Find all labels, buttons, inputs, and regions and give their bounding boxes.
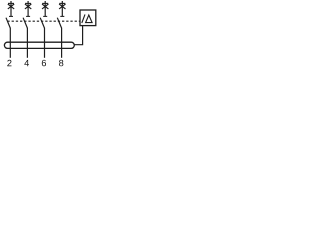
residual-current relay box <box>80 10 96 26</box>
pin number 4 <box>24 60 29 66</box>
wire pole 2 fixed conductor <box>27 1 29 16</box>
wire pole 1 fixed conductor <box>10 1 12 16</box>
switch contact blade pole 1 <box>6 18 10 28</box>
terminal 4 (plug-in clamp symbol, pole 4 top) <box>59 3 65 8</box>
pin number 6 <box>42 60 46 67</box>
current transformer W1 (summation toroid around poles) <box>4 42 74 48</box>
terminal 3 (plug-in clamp symbol, pole 3 top) <box>42 3 48 8</box>
relay delta symbol <box>86 15 93 23</box>
pin number 8 <box>59 60 63 67</box>
fixed contact bar pole 4 <box>60 15 64 17</box>
switch contact blade pole 4 <box>57 18 61 28</box>
relay slash symbol <box>82 14 85 23</box>
pin number 2 <box>7 60 11 66</box>
fixed contact bar pole 1 <box>9 15 13 17</box>
switch contact blade pole 2 <box>23 18 27 28</box>
terminal 2 (plug-in clamp symbol, pole 2 top) <box>25 3 31 8</box>
wire CT secondary to relay <box>74 26 82 45</box>
wire pole 4 fixed conductor <box>61 1 63 16</box>
wire pole 3 fixed conductor <box>44 1 46 16</box>
wire pole 4 lower conductor (to terminal 8) <box>61 28 63 58</box>
fixed contact bar pole 2 <box>26 15 30 17</box>
fixed contact bar pole 3 <box>43 15 47 17</box>
switch contact blade pole 3 <box>40 18 44 28</box>
wire pole 1 lower conductor (to terminal 2) <box>9 28 11 58</box>
wire pole 2 lower conductor (to terminal 4) <box>26 28 28 58</box>
mechanical linkage (dashed trip line to relay) <box>7 20 80 22</box>
terminal 1 (plug-in clamp symbol, pole 1 top) <box>8 3 14 8</box>
wire pole 3 lower conductor (to terminal 6) <box>44 28 46 58</box>
